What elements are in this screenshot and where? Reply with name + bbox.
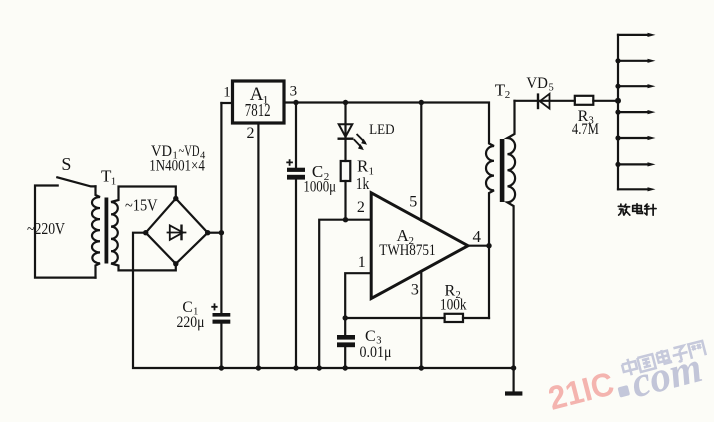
svg-text:R: R xyxy=(357,157,369,176)
svg-text:C: C xyxy=(365,328,376,345)
svg-text:5: 5 xyxy=(409,193,417,210)
svg-text:VD: VD xyxy=(526,75,548,92)
svg-text:220μ: 220μ xyxy=(177,314,205,331)
svg-text:3: 3 xyxy=(411,281,419,298)
svg-text:4.7M: 4.7M xyxy=(572,121,599,138)
svg-text:2: 2 xyxy=(247,125,255,142)
svg-text:TWH8751: TWH8751 xyxy=(379,242,435,259)
svg-text:2: 2 xyxy=(505,89,511,101)
svg-text:1N4001×4: 1N4001×4 xyxy=(149,158,205,175)
svg-text:1000μ: 1000μ xyxy=(303,179,336,196)
svg-text:1k: 1k xyxy=(356,174,370,193)
svg-text:7812: 7812 xyxy=(245,100,271,120)
svg-text:1: 1 xyxy=(111,176,117,188)
svg-text:~15V: ~15V xyxy=(125,196,158,215)
svg-text:3: 3 xyxy=(290,84,298,100)
svg-text:1: 1 xyxy=(223,85,231,101)
svg-text:~220V: ~220V xyxy=(27,219,66,238)
svg-text:1: 1 xyxy=(358,254,366,271)
svg-text:1: 1 xyxy=(369,166,375,178)
svg-text:0.01μ: 0.01μ xyxy=(360,344,392,361)
svg-text:2: 2 xyxy=(357,199,365,216)
svg-text:100k: 100k xyxy=(440,296,467,313)
svg-text:S: S xyxy=(61,154,71,174)
svg-text:5: 5 xyxy=(549,83,554,94)
svg-text:4: 4 xyxy=(473,227,482,246)
svg-text:LED: LED xyxy=(369,122,395,138)
